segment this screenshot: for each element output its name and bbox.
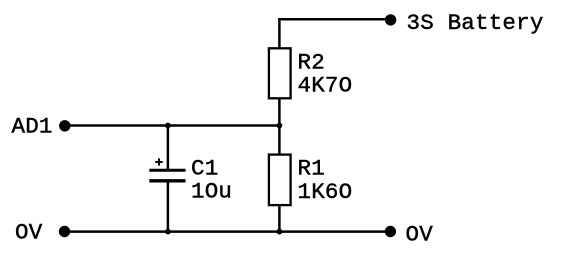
terminal 0V left [59, 226, 70, 237]
terminal 3S Battery [385, 14, 396, 25]
wire top horizontal to battery terminal [278, 18, 390, 21]
resistor R1 [269, 155, 291, 206]
svg-text:R2: R2 [298, 49, 325, 75]
wire R2 bottom to junction [278, 99, 281, 155]
junction node AD1/rail [277, 123, 283, 129]
svg-text:1Ou: 1Ou [191, 179, 232, 205]
junction node 0V/C1 [165, 229, 171, 235]
junction node 0V/rail [277, 229, 283, 235]
capacitor C1 [149, 170, 185, 181]
svg-text:4K7O: 4K7O [298, 73, 353, 99]
svg-text:3S Battery: 3S Battery [407, 10, 544, 36]
svg-text:1K6O: 1K6O [298, 179, 353, 205]
junction node AD1/C1 [165, 123, 171, 129]
wire vertical rail top to R2 [278, 18, 281, 48]
svg-text:OV: OV [406, 222, 434, 248]
svg-text:R1: R1 [298, 155, 325, 181]
svg-text:C1: C1 [191, 155, 218, 181]
wire 0V bottom horizontal [64, 230, 391, 233]
wire capacitor branch upper [167, 126, 170, 171]
terminal AD1 [59, 120, 70, 131]
plus polarity mark [155, 158, 162, 165]
terminal 0V right [385, 226, 396, 237]
wire AD1 horizontal [64, 124, 280, 127]
wire R1 bottom to 0V rail [278, 206, 281, 232]
wire capacitor branch lower [167, 182, 170, 232]
resistor R2 [269, 48, 291, 98]
svg-text:OV: OV [15, 219, 43, 245]
svg-text:AD1: AD1 [12, 114, 53, 140]
